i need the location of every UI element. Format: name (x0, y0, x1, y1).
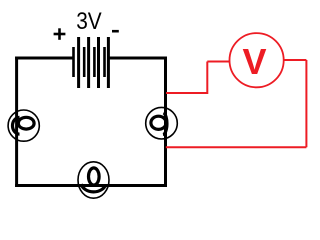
wire top-right segment (109, 57, 168, 60)
wire red horizontal to voltmeter (207, 61, 229, 63)
svg-text:3V: 3V (76, 8, 102, 35)
lamp L2 (right) (146, 107, 178, 139)
wire red vertical right (305, 60, 307, 147)
wire red vertical left (206, 62, 208, 95)
svg-text:V: V (242, 41, 266, 82)
wire top-left segment (15, 57, 73, 60)
lamp L3 (bottom) (78, 162, 109, 198)
label + (battery positive) (54, 28, 66, 40)
red wire: junction at right lamp top to left of voltmeter (166, 60, 307, 147)
battery B1 (3V multi-cell) (72, 37, 110, 88)
lamp L1 (left) (8, 110, 39, 141)
voltmeter M1 circle (230, 33, 284, 87)
label - (battery negative) (112, 30, 119, 33)
wire left vertical (15, 57, 18, 188)
wire red horizontal from voltmeter right (284, 59, 307, 61)
wire red horizontal bottom (166, 146, 307, 148)
wire red horizontal upper-left (166, 92, 207, 94)
wire bottom segment (15, 184, 167, 187)
wire right vertical (164, 57, 167, 188)
